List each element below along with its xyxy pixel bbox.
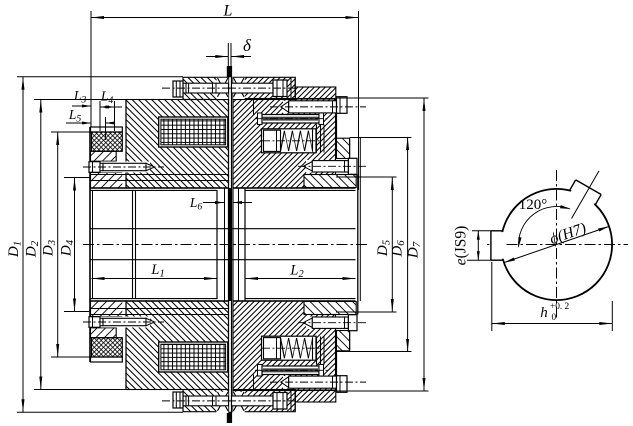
dimension D7 xyxy=(336,98,429,391)
dimension D5 xyxy=(336,177,397,312)
right hub body (bottom) xyxy=(233,301,336,402)
right hub flange (bottom) xyxy=(233,390,295,412)
dimension e JS9 xyxy=(453,226,491,266)
svg-text:L1: L1 xyxy=(150,262,164,280)
dimension L2 xyxy=(245,263,356,281)
friction lining (bottom) xyxy=(92,338,123,357)
outer ring right (bottom) xyxy=(304,302,356,351)
svg-text:D3: D3 xyxy=(41,239,59,257)
dimension D6 xyxy=(337,137,412,352)
rotated keyway centerline xyxy=(572,171,600,219)
dimension delta xyxy=(206,36,252,66)
keyway notch left xyxy=(489,231,504,260)
dimension D2 xyxy=(24,100,127,390)
svg-text:L3: L3 xyxy=(73,88,87,105)
dimension L xyxy=(91,3,359,191)
dimension D3 xyxy=(41,132,92,357)
armature ring (bottom) xyxy=(91,357,123,362)
friction lining (top) xyxy=(92,132,123,151)
centerline main axis xyxy=(83,244,370,246)
svg-text:D7: D7 xyxy=(406,241,424,259)
mirrored details bottom xyxy=(83,315,367,412)
svg-text:0: 0 xyxy=(552,313,557,323)
dimension h xyxy=(492,262,613,331)
dimension L1 xyxy=(92,262,218,280)
svg-text:L4: L4 xyxy=(100,89,114,106)
svg-text:D4: D4 xyxy=(59,239,77,257)
bolt left top xyxy=(162,81,230,97)
svg-text:D2: D2 xyxy=(24,240,42,258)
shaft bore outlines xyxy=(90,99,360,391)
svg-text:L6: L6 xyxy=(189,195,203,212)
hub internal step lines xyxy=(91,100,229,390)
dimension D4 xyxy=(59,178,91,312)
left hub flange (top) xyxy=(183,77,229,99)
armature plate left (top) xyxy=(91,151,127,188)
svg-text:L2: L2 xyxy=(289,263,303,281)
dimension D1 xyxy=(6,77,183,412)
air gap strip xyxy=(122,131,125,358)
flange countersink marks xyxy=(217,78,245,413)
left hub body (top) xyxy=(126,100,229,189)
magnet coil (top) xyxy=(159,117,228,147)
set screw upper right xyxy=(270,97,366,114)
spring assembly right xyxy=(262,125,325,153)
end view centerlines xyxy=(487,170,628,318)
right hub flange (top) xyxy=(233,77,295,99)
adjusting sleeve right xyxy=(254,100,331,125)
keyway notch rotated 120 xyxy=(569,179,602,207)
left hub flange (bottom) xyxy=(183,390,229,412)
svg-text:120°: 120° xyxy=(519,197,548,213)
svg-text:ϕ(H7): ϕ(H7) xyxy=(548,220,589,248)
armature plate left (bottom) xyxy=(91,301,127,338)
svg-text:h: h xyxy=(540,305,548,321)
svg-text:L: L xyxy=(223,3,233,20)
magnet coil (bottom) xyxy=(159,342,228,372)
dimension L6 xyxy=(189,195,252,212)
bolt right top xyxy=(228,77,295,99)
shaft bore circle xyxy=(501,189,612,300)
120 degree arc dimension xyxy=(518,197,570,247)
dimensions L3 L4 L5 xyxy=(66,88,122,140)
center gap delta faces xyxy=(225,66,233,423)
set screw lower right xyxy=(298,158,367,174)
svg-text:e(JS9): e(JS9) xyxy=(453,226,470,266)
left hub body (bottom) xyxy=(126,301,229,390)
right hub body (top) xyxy=(233,87,336,188)
armature ring (top) xyxy=(91,127,123,132)
svg-text:D1: D1 xyxy=(6,241,24,258)
outer ring right (top) xyxy=(304,138,356,187)
phi H7 diameter dimension xyxy=(504,220,609,263)
stud left xyxy=(83,162,164,173)
svg-text:L5: L5 xyxy=(68,107,82,124)
svg-text:+0. 2: +0. 2 xyxy=(550,302,570,312)
svg-text:δ: δ xyxy=(243,36,252,55)
